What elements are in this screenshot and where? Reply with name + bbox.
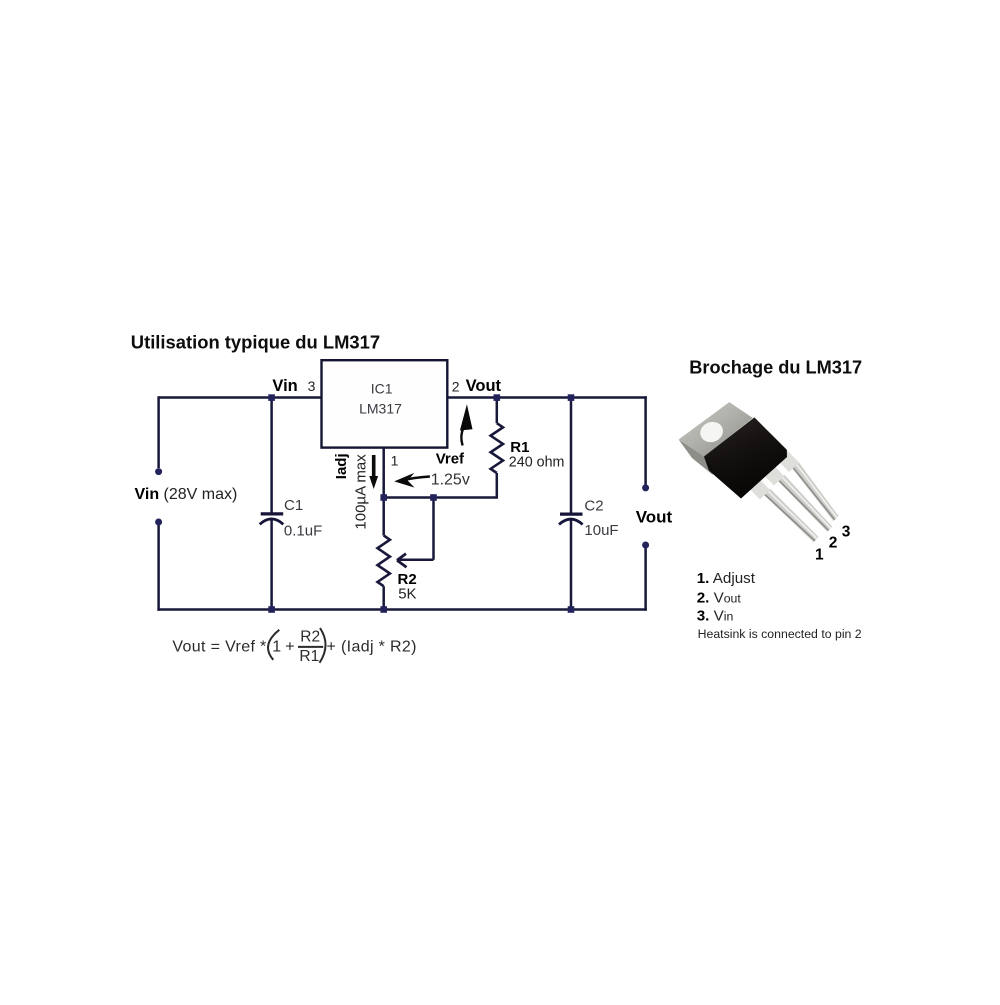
wire top-left from Vin rail to IC pin3 [159, 396, 322, 399]
wire IC pin1 stub [382, 448, 385, 498]
IC box U1 [322, 360, 448, 447]
resistor R1 zigzag [491, 423, 503, 473]
wire right rail lower segment [644, 548, 647, 611]
svg-text:5K: 5K [398, 585, 416, 602]
LM317 package tab hole [697, 419, 725, 446]
wire left rail upper segment [157, 396, 160, 468]
LM317 package body [704, 417, 787, 498]
svg-text:C1: C1 [284, 497, 303, 514]
svg-text:Vout: Vout [636, 508, 673, 527]
LM317 package tab side facet [679, 440, 713, 476]
wire C2 branch upper [570, 398, 573, 514]
arrow Iadj down [369, 455, 378, 489]
lead 3 stub [774, 448, 799, 473]
svg-text:1: 1 [815, 546, 824, 563]
wire R2 upper stub [382, 498, 385, 536]
svg-text:2: 2 [452, 378, 460, 394]
svg-text:R1: R1 [299, 648, 319, 665]
wire R2 lower stub [382, 586, 385, 609]
svg-text:10uF: 10uF [584, 522, 618, 539]
svg-text:Vin (28V max): Vin (28V max) [135, 486, 238, 503]
svg-text:Iadj: Iadj [333, 453, 350, 479]
junction dot C2 bottom [568, 606, 575, 613]
LM317 package leads [745, 448, 838, 543]
svg-text:R1: R1 [510, 439, 529, 456]
svg-text:0.1uF: 0.1uF [284, 523, 322, 540]
wire left rail lower segment [157, 525, 160, 611]
lead 3 narrow [792, 462, 839, 521]
terminal dot Vout upper [642, 484, 649, 491]
lead 2 stub [759, 461, 784, 486]
svg-text:Utilisation typique du LM317: Utilisation typique du LM317 [131, 331, 380, 352]
capacitor C2 symbol [559, 514, 583, 524]
svg-text:3: 3 [308, 378, 316, 394]
svg-text:3. Vin: 3. Vin [697, 607, 734, 624]
capacitor C1 symbol [260, 514, 284, 524]
svg-text:+ (Iadj * R2): + (Iadj * R2) [327, 638, 417, 655]
svg-text:2: 2 [829, 535, 838, 552]
lead 1 stub [745, 475, 770, 500]
svg-text:1: 1 [391, 452, 399, 468]
svg-text:+: + [285, 638, 294, 655]
wire C1 branch lower [270, 520, 273, 610]
formula [172, 628, 416, 665]
wire R1 branch upper [496, 398, 499, 424]
svg-text:1.25v: 1.25v [431, 471, 470, 488]
junction dot wiper node [430, 494, 437, 501]
svg-text:3: 3 [842, 523, 851, 540]
svg-text:Vout = Vref *: Vout = Vref * [172, 638, 266, 655]
svg-text:240 ohm: 240 ohm [509, 455, 565, 471]
resistor R2 zigzag [378, 536, 390, 587]
svg-text:C2: C2 [584, 498, 603, 515]
svg-text:Heatsink is connected to pin 2: Heatsink is connected to pin 2 [698, 627, 862, 641]
junction dot R2 bottom [380, 606, 387, 613]
svg-text:1. Adjust: 1. Adjust [697, 570, 756, 587]
LM317 package metal tab [679, 402, 753, 456]
LM317 package body front face [704, 457, 741, 499]
svg-text:1: 1 [272, 639, 281, 656]
junction dot R1 top [494, 394, 501, 401]
wire top-right from IC pin2 to right rail [447, 396, 647, 399]
junction dot C1 bottom [268, 606, 275, 613]
wire wiper branch horizontal [399, 559, 434, 562]
arrow Vref up curved [460, 404, 473, 445]
junction dot C1 top [268, 394, 275, 401]
terminal dot Vin lower [155, 519, 162, 526]
wire C2 branch lower [570, 520, 573, 610]
wire adj node horizontal [383, 496, 499, 499]
svg-text:IC1: IC1 [371, 380, 393, 396]
svg-text:2. Vout: 2. Vout [697, 589, 742, 606]
svg-text:R2: R2 [300, 629, 320, 646]
arrow R2 wiper [397, 554, 407, 568]
junction dot C2 top [568, 394, 575, 401]
wire bottom rail [157, 608, 646, 611]
junction dot pin1 node [380, 494, 387, 501]
svg-text:LM317: LM317 [359, 400, 402, 416]
lead 1 narrow [764, 489, 819, 543]
wire wiper branch vertical [432, 498, 435, 560]
wire R1 branch lower [496, 473, 499, 498]
svg-text:Brochage du LM317: Brochage du LM317 [689, 358, 862, 378]
svg-text:100µA max: 100µA max [353, 454, 370, 530]
svg-text:Vout: Vout [466, 377, 502, 395]
wire C1 branch upper [270, 398, 273, 514]
wire right rail upper segment [644, 396, 647, 491]
terminal dot Vin upper [155, 468, 162, 475]
terminal dot Vout lower [642, 542, 649, 549]
lead 2 narrow [778, 475, 832, 532]
arrow 1.25v to pin1 [394, 473, 430, 488]
svg-text:Vin: Vin [272, 377, 297, 395]
svg-text:Vref: Vref [436, 450, 465, 467]
